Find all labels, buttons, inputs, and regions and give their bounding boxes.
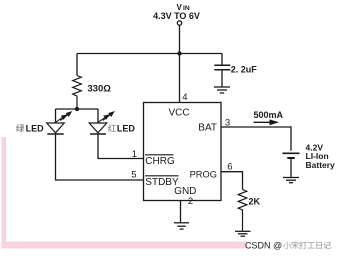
svg-text:1: 1 bbox=[132, 149, 137, 160]
svg-text:2K: 2K bbox=[249, 197, 261, 207]
svg-text:CHRG: CHRG bbox=[145, 156, 175, 167]
svg-text:5: 5 bbox=[131, 170, 136, 181]
svg-text:BAT: BAT bbox=[198, 123, 217, 134]
svg-text:6: 6 bbox=[227, 162, 232, 173]
svg-text:2: 2 bbox=[188, 196, 193, 207]
svg-text:4: 4 bbox=[182, 92, 187, 103]
svg-text:CSDN @: CSDN @ bbox=[245, 241, 282, 251]
svg-text:500mA: 500mA bbox=[254, 110, 284, 120]
svg-text:Battery: Battery bbox=[306, 160, 336, 170]
svg-text:2. 2uF: 2. 2uF bbox=[231, 64, 258, 74]
svg-text:PROG: PROG bbox=[190, 169, 217, 179]
svg-text:LED: LED bbox=[26, 123, 45, 133]
svg-text:3: 3 bbox=[225, 118, 230, 129]
svg-text:4.3V TO 6V: 4.3V TO 6V bbox=[153, 11, 200, 21]
svg-text:330Ω: 330Ω bbox=[87, 83, 111, 94]
svg-text:VCC: VCC bbox=[168, 108, 189, 119]
svg-text:LED: LED bbox=[117, 123, 136, 133]
